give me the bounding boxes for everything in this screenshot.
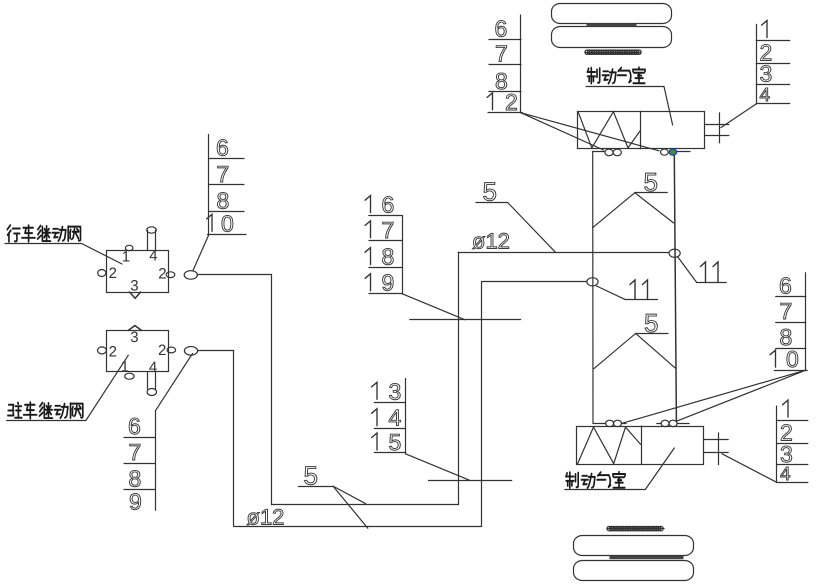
wire bottom horizontal (U1 circuit) xyxy=(272,504,459,506)
chamber 2 port circles pair B xyxy=(657,423,661,425)
label 制动气室 (brake chamber, bottom) xyxy=(566,472,625,488)
label 制动气室 (brake chamber, top) xyxy=(587,67,645,83)
air spring bottom: coil strip xyxy=(607,526,664,530)
svg-text:3: 3 xyxy=(780,441,793,467)
air spring bottom: lower lobe xyxy=(574,561,694,581)
chamber 2 pushrod fork xyxy=(704,439,729,441)
U1 port 2 left circle xyxy=(98,270,106,277)
svg-text:7: 7 xyxy=(129,439,142,465)
svg-text:2: 2 xyxy=(158,266,166,283)
leader list B to chamber 1 port pair B xyxy=(521,113,659,151)
svg-text:9: 9 xyxy=(382,270,395,296)
brake chamber 1 body (top) xyxy=(578,112,705,149)
chamber 2 spring zigzag xyxy=(578,427,641,464)
leader underline for bottom 制动气室 xyxy=(565,448,675,490)
callout 11 left (node E4) xyxy=(630,280,648,299)
item list D (13 14 15) xyxy=(372,378,406,455)
air spring top: coil strip xyxy=(585,50,641,54)
leader list H to node E2 xyxy=(155,354,192,411)
wire bottom horizontal (U2 circuit) xyxy=(234,526,482,528)
wire vertical up (U1 circuit) xyxy=(458,252,460,504)
chamber 2 divider xyxy=(641,426,643,465)
svg-text:9: 9 xyxy=(129,489,142,515)
item list B (6 7 8 12, top) xyxy=(487,15,522,115)
item list F (6 7 8 10, mid-right) xyxy=(770,273,807,373)
wire left chamber drop line V1 xyxy=(592,152,594,424)
svg-text:4: 4 xyxy=(389,405,402,431)
svg-text:2: 2 xyxy=(109,265,117,282)
svg-text:7: 7 xyxy=(382,217,395,243)
svg-text:ø12: ø12 xyxy=(472,229,510,254)
svg-text:4: 4 xyxy=(149,248,157,265)
svg-text:7: 7 xyxy=(217,161,230,187)
chamber 1 divider xyxy=(640,111,642,148)
wire U2 outlet to corner xyxy=(198,350,234,352)
brake chamber 2 body (bottom) xyxy=(577,427,704,465)
svg-text:3: 3 xyxy=(760,61,773,87)
svg-text:6: 6 xyxy=(382,192,395,218)
item list A (6 7 8 10, upper-left) xyxy=(207,134,246,236)
item list G (1 2 3 4, lower-right) xyxy=(777,400,808,485)
svg-text:1: 1 xyxy=(122,249,130,266)
leader list E to chamber 1 fork xyxy=(721,104,756,128)
item list E (1 2 3 4, upper-right) xyxy=(756,21,789,106)
air spring bottom: upper lobe xyxy=(574,536,694,556)
leader list F to chamber 2 port pair B xyxy=(678,370,807,421)
chamber 1 spring zigzag xyxy=(578,112,641,148)
relay valve U1 body xyxy=(107,251,169,293)
U1 port 4 cylinder xyxy=(148,230,156,250)
U2 port 1 circle xyxy=(125,373,134,379)
svg-text:8: 8 xyxy=(382,244,395,270)
U1 exhaust chevron (down arrow) xyxy=(130,292,141,298)
leader list A to node E1 xyxy=(193,234,209,271)
svg-text:3: 3 xyxy=(130,329,138,346)
air spring top: upper lobe xyxy=(552,4,672,24)
leader from 行车继动阀 label to valve U1 xyxy=(5,244,122,265)
wire vertical down from U1 line xyxy=(271,275,273,505)
svg-text:7: 7 xyxy=(780,298,793,324)
leader list F to chamber 2 port pair A xyxy=(623,370,807,423)
wire horizontal to left chamber line xyxy=(482,281,587,283)
wire U1 outlet to corner xyxy=(197,274,271,276)
leader list B to chamber 1 port pair A xyxy=(521,113,604,150)
svg-text:3: 3 xyxy=(389,378,402,404)
U2 port 2 right circle xyxy=(167,347,176,353)
wire top horizontal to right chamber line xyxy=(458,252,669,254)
U1 port 2 right circle xyxy=(166,272,175,278)
node E3 (fitting on right drop line) xyxy=(669,249,680,257)
wire vertical down from U2 line xyxy=(233,351,235,526)
node E1 (pipe fitting at U1 outlet) xyxy=(184,271,197,280)
chamber 2 port circles pair A xyxy=(593,423,606,425)
chamber 1 pushrod fork xyxy=(705,124,729,126)
chamber 1 port circles pair A xyxy=(593,151,605,153)
node E4 (fitting on left drop line) xyxy=(587,278,598,286)
label 驻车继动阀 (parking relay valve) xyxy=(8,402,83,419)
U2 port 2 left circle xyxy=(98,347,107,354)
callout 11 right (node E3) xyxy=(701,262,719,282)
svg-text:6: 6 xyxy=(128,413,141,439)
svg-text:7: 7 xyxy=(495,41,508,67)
svg-text:6: 6 xyxy=(216,134,229,160)
svg-text:4: 4 xyxy=(780,464,791,485)
svg-text:ø12: ø12 xyxy=(247,505,285,530)
node E2 (pipe fitting at U2 outlet) xyxy=(184,347,197,356)
svg-text:2: 2 xyxy=(505,89,518,115)
air spring bottom: waist band xyxy=(610,556,684,559)
wire right chamber drop line V2 xyxy=(674,155,676,421)
svg-text:6: 6 xyxy=(495,16,508,42)
svg-text:6: 6 xyxy=(779,273,792,299)
U2 exhaust chevron (up arrow) xyxy=(128,326,141,331)
svg-text:2: 2 xyxy=(109,344,117,361)
air spring top: lower lobe xyxy=(552,27,672,48)
leader list C to hose marker 19 xyxy=(402,294,465,320)
chamber 1 port circles pair B (with colored fitting) xyxy=(661,149,669,155)
U2 port 4 cylinder xyxy=(148,372,156,390)
label 行车继动阀 (driving relay valve) xyxy=(7,225,80,242)
svg-text:5: 5 xyxy=(389,429,402,455)
svg-text:2: 2 xyxy=(158,342,166,359)
air spring top: waist band xyxy=(587,24,637,27)
wire hose section marker (item 19) xyxy=(410,319,521,321)
leader list D to hose marker 15 xyxy=(406,454,470,480)
svg-text:4: 4 xyxy=(760,85,771,106)
svg-text:3: 3 xyxy=(130,278,138,295)
item list H (6 7 8 9, lower-left) xyxy=(124,411,156,515)
svg-text:0: 0 xyxy=(221,210,234,236)
item list C (16 17 18 19) xyxy=(365,192,402,296)
U1 port 1 circle xyxy=(125,245,133,250)
svg-text:0: 0 xyxy=(786,346,799,372)
wire vertical up (U2 circuit) xyxy=(481,282,483,526)
leader list G to chamber 2 fork xyxy=(722,454,777,483)
relay valve U2 body xyxy=(107,331,169,372)
leader underline for top 制动气室 xyxy=(586,87,673,125)
wire hose section marker (item 15) xyxy=(429,480,512,482)
leader from 驻车继动阀 label to valve U2 xyxy=(7,355,129,420)
